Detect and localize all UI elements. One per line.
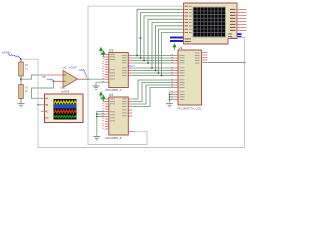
oscilloscope body bbox=[45, 87, 84, 123]
ADC U3 left pins bbox=[105, 55, 109, 83]
PIC U1 bbox=[178, 46, 202, 111]
wire vertical x87 (op-amp output up/down rail) bbox=[88, 6, 184, 144]
LCD1 left pin labels bbox=[185, 6, 189, 42]
LCD1 body bbox=[184, 3, 238, 44]
node marker on bundle wire bbox=[139, 37, 141, 39]
ground below R2 bbox=[18, 104, 25, 107]
wire U4 staircase 3 bbox=[132, 85, 174, 104]
svg-text:U2: U2 bbox=[63, 66, 67, 70]
wire scope channel B bbox=[38, 104, 45, 106]
ADC U4 bottom-right pin bbox=[128, 131, 135, 133]
wire U4 staircase 1 bbox=[132, 80, 174, 99]
probe VOUT at op-amp output bbox=[69, 66, 88, 78]
svg-text:VOUT: VOUT bbox=[69, 66, 78, 70]
wire U2 output bbox=[78, 78, 89, 80]
wire R2 bottom lead bbox=[20, 99, 22, 104]
svg-text:OSC: OSC bbox=[60, 87, 66, 90]
probe at U2 inverting input bbox=[42, 75, 54, 81]
sine generator VIN bbox=[2, 50, 22, 59]
svg-text:VF: VF bbox=[42, 75, 46, 79]
wire PIC right pin to right rail bbox=[204, 62, 245, 64]
oscilloscope traces bbox=[54, 101, 76, 104]
wire scope channel C bbox=[41, 110, 45, 112]
ground U4 bbox=[93, 137, 100, 140]
ADC U4 right pins bbox=[128, 99, 132, 116]
node right rail junction bbox=[244, 62, 246, 64]
wire mesh U3 to PIC row7 bbox=[132, 72, 174, 74]
LCD1 bottom labels bbox=[185, 34, 232, 42]
svg-text:U3: U3 bbox=[109, 49, 113, 53]
ground PIC bottom left bbox=[166, 104, 173, 107]
svg-text:U1: U1 bbox=[179, 46, 183, 50]
LCD1 right pins bbox=[237, 10, 247, 31]
PIC inner pin text bbox=[180, 53, 200, 100]
svg-text:ADC0808_A: ADC0808_A bbox=[105, 88, 122, 92]
ADC U3 right pins bbox=[128, 56, 132, 76]
LCD1 left pin names bbox=[189, 6, 192, 33]
wire R1-R2 link bbox=[20, 76, 22, 85]
ADC U3 inner pin text bbox=[110, 54, 127, 79]
wire bundle loop 6 bbox=[156, 26, 184, 71]
LCD1 screen bbox=[193, 7, 226, 37]
ground U3 bbox=[93, 86, 100, 89]
node U4 ground ties bbox=[96, 113, 98, 117]
junction dots on mesh bbox=[136, 55, 162, 77]
ADC U4 inner pin text bbox=[110, 99, 127, 122]
wire mesh U3 to PIC row2 bbox=[132, 57, 174, 59]
node scope B junction bbox=[37, 104, 39, 106]
wire PIC unused pins to ground bbox=[170, 92, 175, 104]
wire bundle loop 4 bbox=[148, 19, 184, 63]
wire U4 left lower to ground bbox=[97, 112, 105, 137]
ADC U3 bbox=[105, 49, 128, 93]
svg-text:U4: U4 bbox=[109, 93, 113, 97]
wire feedback loop bbox=[32, 81, 54, 98]
wire bundle loop 5 bbox=[152, 23, 184, 69]
wire mesh U3 to PIC row5 bbox=[132, 67, 174, 69]
wire mesh U3 to PIC row3 bbox=[132, 60, 174, 62]
svg-text:VSINE: VSINE bbox=[2, 50, 11, 54]
wire mesh U3 to PIC row8 bbox=[132, 75, 174, 77]
oscilloscope channel pins bbox=[47, 97, 49, 121]
wire bundle loop 3 bbox=[144, 16, 184, 61]
wire U4 staircase 4 bbox=[132, 88, 174, 107]
svg-text:AD0.7: AD0.7 bbox=[128, 64, 136, 68]
bus segment left of LCD bbox=[170, 37, 183, 43]
resistor R2 bbox=[19, 85, 29, 99]
ADC U4 bbox=[105, 93, 128, 140]
wire U3 left lower to ground rail bbox=[96, 82, 105, 86]
PIC U1 left pin numbers bbox=[171, 54, 173, 99]
wire U2 plus input bbox=[54, 80, 63, 82]
wire mesh U3 to PIC row1 bbox=[132, 55, 174, 57]
PIC U1 right pins with labels bbox=[202, 53, 208, 61]
node divider junction bbox=[20, 78, 22, 80]
wire perimeter loop (input net routed around sheet) bbox=[21, 38, 245, 148]
resistor R1 bbox=[19, 62, 29, 76]
power VCC arrows above U3 bbox=[100, 48, 106, 58]
wire bundle loop 8 bbox=[162, 32, 184, 75]
node input junction bbox=[20, 58, 22, 60]
svg-text:PIC16F877A_LCD: PIC16F877A_LCD bbox=[178, 107, 202, 111]
node op-amp output junction bbox=[87, 78, 89, 80]
wire R1 top lead bbox=[20, 59, 22, 62]
node plus input bbox=[53, 80, 55, 82]
power VCC arrows above U4 bbox=[100, 92, 106, 102]
wire bundle loop 1 bbox=[137, 9, 184, 55]
wire scope channel A bbox=[32, 97, 45, 99]
wire bundle loop 7 bbox=[159, 29, 184, 73]
op-amp U2 bbox=[61, 66, 78, 94]
svg-text:ADC0808_B: ADC0808_B bbox=[105, 136, 122, 140]
PIC U1 left pins bbox=[174, 56, 178, 100]
wire divider output to op-amp bbox=[21, 75, 40, 79]
ADC U4 left pins bbox=[105, 99, 109, 129]
wire bundle loop 2 bbox=[141, 13, 184, 58]
bus segment right below LCD bbox=[233, 33, 242, 37]
power VCC arrow above PIC bbox=[173, 44, 176, 50]
wire mesh U3 to PIC row6 bbox=[132, 70, 174, 72]
wire U4 staircase 2 bbox=[132, 83, 174, 102]
wire mesh U3 to PIC row4 bbox=[132, 62, 174, 64]
